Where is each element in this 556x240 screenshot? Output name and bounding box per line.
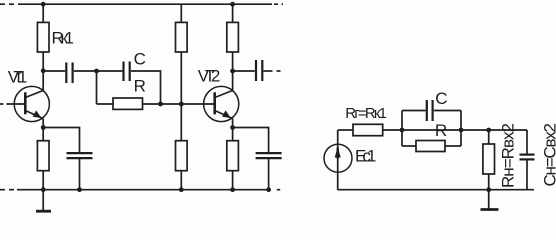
svg-text:Cн=Свх2: Cн=Свх2 xyxy=(541,123,556,187)
svg-text:Rг=Rк1: Rг=Rк1 xyxy=(345,105,387,122)
svg-text:Rн=Rвх2: Rн=Rвх2 xyxy=(499,123,518,188)
svg-text:R: R xyxy=(134,77,146,96)
svg-text:C: C xyxy=(134,50,146,69)
svg-text:Rк1: Rк1 xyxy=(52,29,75,48)
svg-text:VT2: VT2 xyxy=(198,67,221,86)
svg-text:VT1: VT1 xyxy=(8,67,28,86)
svg-text:C: C xyxy=(435,89,447,108)
svg-text:Eс1: Eс1 xyxy=(355,146,376,165)
svg-text:R: R xyxy=(435,121,447,140)
